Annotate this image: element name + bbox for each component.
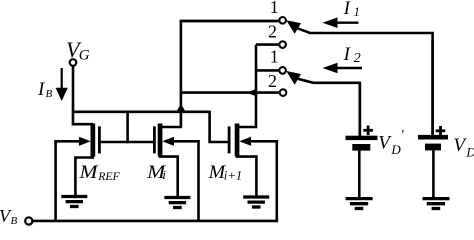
- wire MREF bulk riser to VB rail: [54, 140, 57, 221]
- label Mi+1: [208, 162, 243, 183]
- svg-text:2: 2: [268, 71, 277, 91]
- switch2 pos1 contact: [279, 67, 286, 74]
- wire gate rail drop to Mi+1: [210, 111, 229, 142]
- transistor Mi+1: [228, 124, 278, 157]
- label I1: [343, 0, 360, 19]
- wire MREF source: [75, 156, 92, 196]
- svg-text:V: V: [453, 135, 467, 156]
- wire Mi bulk riser to VB rail: [197, 140, 200, 221]
- label MREF: [78, 162, 120, 183]
- wire Mi drain link and riser to top line: [159, 21, 181, 127]
- transistor Mi: [153, 124, 200, 157]
- wire switch2 pos1 link: [256, 69, 279, 72]
- svg-text:1: 1: [270, 0, 279, 17]
- svg-text:REF: REF: [97, 169, 120, 183]
- battery VD1 plates: [346, 136, 378, 151]
- wire Mi+1 source: [237, 156, 256, 196]
- wire rail B MREF drain link: [72, 123, 93, 126]
- ground MREF: [61, 197, 87, 207]
- svg-text:1: 1: [270, 46, 279, 66]
- wire top line to switch1 pos1: [180, 20, 279, 23]
- svg-text:i: i: [162, 168, 166, 182]
- switch1 pos1 contact: [279, 17, 286, 24]
- current arrow IB: [56, 68, 68, 101]
- svg-text:1: 1: [354, 4, 360, 19]
- svg-text:2: 2: [354, 51, 361, 66]
- label I2: [343, 44, 361, 66]
- wire VG vertical: [72, 66, 75, 126]
- battery VD2 plus sign: [436, 126, 446, 136]
- switch1 pos2 contact: [279, 41, 286, 48]
- ground battery VD1: [346, 199, 373, 209]
- svg-text:I: I: [343, 44, 352, 65]
- switch1 arm: [286, 20, 432, 135]
- label VD prime: [378, 128, 404, 157]
- transistor MREF: [54, 124, 101, 157]
- current arrow I1: [323, 17, 359, 28]
- wire switch1 pos2 link: [256, 43, 279, 46]
- current annotation left arrow on tap wire: [246, 89, 256, 97]
- label VG: [66, 37, 90, 63]
- ground battery VD2: [423, 199, 450, 209]
- svg-text:B: B: [11, 215, 18, 226]
- svg-text:I: I: [343, 0, 352, 19]
- battery VD2 top wire: [431, 40, 434, 135]
- label IB: [37, 79, 53, 100]
- switch2 pos2 contact: [280, 89, 287, 96]
- wire MREF gate riser: [126, 111, 129, 144]
- label VB: [0, 206, 18, 227]
- battery VD2 plates: [418, 135, 448, 151]
- node VB terminal circle: [25, 217, 32, 224]
- wire Mi+1 bulk riser to VB rail: [275, 140, 278, 221]
- wire VB rail: [33, 220, 279, 223]
- svg-text:G: G: [79, 47, 90, 63]
- wire Mi source: [160, 156, 178, 197]
- svg-text:i+1: i+1: [224, 168, 243, 182]
- switch2 arm: [286, 71, 360, 136]
- battery VD2 bottom wire: [432, 150, 435, 197]
- svg-text:′: ′: [401, 128, 405, 143]
- svg-text:D: D: [390, 142, 401, 157]
- ground Mi+1: [243, 197, 269, 207]
- label VD2: [453, 135, 474, 160]
- node VG terminal circle: [70, 59, 77, 66]
- wire common gate line MREF-Mi: [99, 141, 154, 144]
- svg-text:B: B: [46, 88, 53, 100]
- wire Mi+1 drain link and riser to switch bracket: [236, 45, 256, 127]
- battery VD1 plus sign: [363, 126, 373, 136]
- svg-text:M: M: [78, 162, 98, 183]
- svg-text:D: D: [465, 145, 474, 160]
- svg-text:V: V: [378, 132, 392, 153]
- wire Mi drain tap to switch2 pos2: [181, 91, 279, 94]
- battery VD1 bottom wire: [358, 151, 361, 197]
- current arrow I2: [323, 63, 363, 74]
- battery VD1 top wire: [358, 83, 361, 136]
- ground Mi: [164, 198, 190, 208]
- current annotation up arrow on Mi drain riser: [177, 104, 185, 111]
- label Mi: [146, 162, 166, 183]
- svg-text:2: 2: [268, 21, 277, 41]
- wire gate rail A: [72, 111, 210, 114]
